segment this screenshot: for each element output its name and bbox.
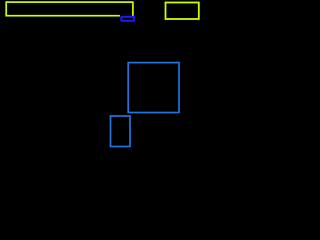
top right box (166, 3, 199, 20)
big blue square (128, 63, 179, 113)
small blue rect (111, 116, 131, 147)
top wide bar (6, 2, 133, 16)
eraser under pill (120, 15, 132, 18)
blue pill (121, 17, 134, 21)
